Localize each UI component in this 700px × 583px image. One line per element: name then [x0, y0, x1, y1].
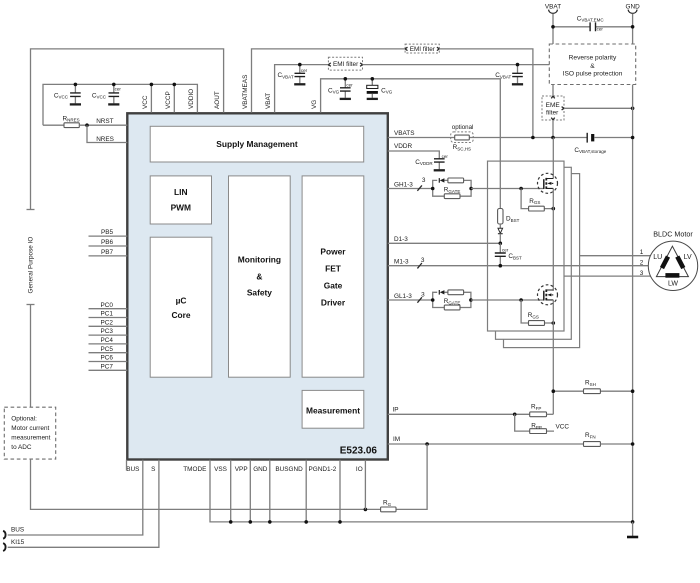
- junction dot RFN GND: [631, 442, 635, 446]
- capacitor CVBAT,EMC cer: [577, 15, 605, 31]
- resistor RGS low side: [521, 300, 553, 325]
- wire pin VG rail: [321, 79, 501, 161]
- svg-text:measurement: measurement: [11, 435, 50, 442]
- svg-text:VCC: VCC: [142, 95, 149, 109]
- svg-text:PC0: PC0: [101, 302, 114, 309]
- junction dot RGATE HS right: [469, 187, 473, 191]
- bus slash 3 GL1-3: [417, 291, 425, 302]
- junction dot EME GND: [631, 107, 635, 111]
- bridge stacked rectangle 2: [496, 167, 572, 339]
- svg-text:S: S: [151, 466, 155, 473]
- junction dot IO RG: [364, 508, 368, 512]
- wire VBAT net below box: [552, 85, 554, 97]
- svg-text:1: 1: [640, 249, 644, 256]
- junction dot NRST node: [85, 123, 89, 127]
- svg-text:ISO pulse protection: ISO pulse protection: [563, 70, 623, 77]
- wire pin VCC: [150, 84, 152, 112]
- junction dot LS gate RGS: [519, 298, 523, 302]
- svg-text:GL1-3: GL1-3: [394, 293, 412, 300]
- junction dot CVBAT2: [516, 63, 520, 67]
- svg-text:EME: EME: [546, 102, 561, 109]
- optional resistor RSC,HS: [451, 124, 474, 151]
- junction dot D1-3 DBST: [499, 242, 503, 246]
- svg-text:3: 3: [421, 291, 425, 298]
- wire GND main vertical: [632, 85, 634, 522]
- pin stub PB6: [89, 245, 128, 247]
- svg-text:Gate: Gate: [324, 280, 343, 290]
- wire pin M1-3 phase 2 to motor: [388, 265, 651, 267]
- svg-text:filter: filter: [546, 110, 559, 117]
- resistor RG: [381, 500, 396, 512]
- svg-text:LU: LU: [653, 254, 662, 261]
- junction dot IP node: [513, 413, 517, 417]
- connector arrow KI15: [3, 543, 5, 551]
- wire VCC rail top-left: [43, 84, 197, 125]
- svg-text:AOUT: AOUT: [214, 91, 221, 109]
- resistor RPP pull-up to VCC: [515, 414, 570, 433]
- resistor RSH: [553, 380, 632, 394]
- svg-text:M1-3: M1-3: [394, 259, 409, 266]
- svg-text:Motor current: Motor current: [11, 425, 49, 432]
- terminal GND: [625, 4, 640, 44]
- left pin strip stub: [126, 460, 128, 471]
- svg-text:VDDIO: VDDIO: [188, 89, 195, 109]
- diode DBST: [498, 209, 520, 244]
- svg-text:GND: GND: [625, 4, 640, 11]
- junction dot VPP: [249, 520, 253, 524]
- svg-text:PB6: PB6: [101, 239, 114, 246]
- svg-text:VSS: VSS: [214, 466, 227, 473]
- svg-text:LW: LW: [668, 280, 678, 287]
- junction dot VBAT column VBATS: [551, 136, 555, 140]
- svg-text:&: &: [256, 272, 262, 282]
- EME filter dashed box: [542, 96, 564, 120]
- wire EMI filter 1 output down to VBATS net: [439, 49, 533, 138]
- block Monitoring & Safety: [229, 176, 291, 377]
- svg-text:KI15: KI15: [11, 539, 25, 546]
- svg-text:VCCP: VCCP: [165, 91, 172, 109]
- svg-text:VBATMEAS: VBATMEAS: [242, 75, 249, 109]
- svg-text:PB7: PB7: [101, 249, 114, 256]
- pin stub PC6: [89, 361, 128, 363]
- capacitor CVBAT 2: [495, 65, 523, 85]
- svg-text:IO: IO: [356, 466, 363, 473]
- wire pin VCCP: [173, 84, 175, 112]
- IC E523.06 main block: [127, 113, 388, 459]
- svg-text:µC: µC: [176, 295, 187, 305]
- wire VG rail inside bridge to DBST: [499, 161, 501, 208]
- capacitor CVCC 2 cer: [92, 84, 121, 104]
- svg-text:Safety: Safety: [247, 288, 272, 298]
- wire AOUT to left rail: [31, 49, 224, 210]
- junction dot ground bus GND line: [631, 520, 635, 524]
- svg-text:PC3: PC3: [101, 328, 114, 335]
- svg-text:VBATS: VBATS: [394, 130, 414, 137]
- wire pin GH1-3: [388, 188, 433, 190]
- optional ADC dashed box: [4, 407, 55, 459]
- svg-text:PB5: PB5: [101, 229, 114, 236]
- resistor RFP: [530, 403, 554, 416]
- wire pin TMODE to ground bus: [210, 460, 633, 522]
- wire EME filter to GND line: [564, 107, 633, 109]
- pin stub PC2: [89, 325, 128, 327]
- svg-text:BUSGND: BUSGND: [275, 466, 303, 473]
- wire phase 1 from bridge 3: [580, 255, 651, 257]
- pin stub PC5: [89, 352, 128, 354]
- svg-text:3: 3: [422, 177, 426, 184]
- svg-text:LIN: LIN: [174, 187, 188, 197]
- wire AOUT down to optional box: [30, 305, 32, 408]
- bridge stacked rectangle 1: [488, 161, 565, 331]
- junction dot VBAT rail: [551, 25, 555, 29]
- svg-text:IP: IP: [393, 407, 399, 414]
- svg-text:VG: VG: [311, 100, 318, 109]
- svg-text:BLDC Motor: BLDC Motor: [653, 230, 693, 239]
- wire VBAT-GND top rail: [553, 26, 633, 28]
- svg-text:&: &: [590, 63, 595, 70]
- block LIN PWM: [150, 176, 211, 224]
- capacitor CVG 1 cer: [328, 79, 353, 99]
- junction dot RSH left: [552, 389, 556, 393]
- terminal VBAT: [545, 4, 561, 44]
- junction dot EMI1-VBATS: [531, 136, 535, 140]
- svg-text:BUS: BUS: [11, 526, 24, 533]
- resistor RFN: [584, 432, 633, 446]
- junction dot RGS HS source: [552, 207, 556, 211]
- svg-text:IM: IM: [393, 436, 400, 443]
- capacitor CBST cer: [495, 243, 522, 265]
- svg-text:BUS: BUS: [126, 466, 139, 473]
- capacitor CVG 2 electrolytic: [367, 79, 393, 99]
- svg-text:VPP: VPP: [235, 466, 248, 473]
- capacitor CVBAT 1 cer: [278, 65, 308, 85]
- svg-text:cer: cer: [115, 86, 122, 91]
- svg-text:VBAT: VBAT: [265, 93, 272, 109]
- svg-text:D1-3: D1-3: [394, 236, 408, 243]
- tick break top General Purpose IO: [27, 209, 35, 211]
- block Supply Management: [150, 126, 364, 162]
- reverse polarity ISO pulse protection dashed box: [549, 44, 635, 85]
- pin stub PB7: [89, 255, 128, 257]
- svg-text:FET: FET: [325, 264, 342, 274]
- svg-text:PC4: PC4: [101, 337, 114, 344]
- EMI filter box 2: [328, 57, 362, 70]
- bridge stacked rectangle 3: [504, 174, 580, 348]
- wire EME filter down to VBATS node: [552, 120, 554, 138]
- svg-text:PWM: PWM: [171, 203, 191, 213]
- svg-text:optional: optional: [452, 124, 474, 131]
- wire IM branch down to RG: [396, 444, 427, 509]
- tick break bottom General Purpose IO: [27, 304, 35, 306]
- wire NRES: [87, 125, 127, 142]
- junction dot GND pin: [268, 520, 272, 524]
- pin stub PC4: [89, 343, 128, 345]
- svg-text:cer: cer: [597, 27, 604, 32]
- pin stub PC7: [89, 369, 128, 371]
- resistor network RGATE high side with diode: [433, 178, 471, 199]
- wire pin VSS: [230, 460, 232, 522]
- wire EMI filter 2 output to reverse polarity box: [363, 64, 550, 66]
- wire pin IP: [388, 413, 530, 415]
- svg-text:Supply Management: Supply Management: [216, 139, 298, 149]
- pin stub PC0: [89, 308, 128, 310]
- svg-text:TMODE: TMODE: [183, 466, 206, 473]
- junction dot HS gate RGS: [519, 187, 523, 191]
- junction dot GND rail: [631, 25, 635, 29]
- junction dot CVBAT1: [298, 63, 302, 67]
- wire GND to ground symbol: [632, 522, 634, 537]
- block uC Core: [150, 237, 212, 377]
- junction dot CVCC2: [112, 83, 116, 87]
- wire pin VBAT up to EMI filter 2: [275, 65, 329, 113]
- wire from optional box to IO line: [31, 459, 381, 509]
- block Power FET Gate Driver: [302, 176, 364, 377]
- bus slash 3 GH1-3: [417, 177, 425, 191]
- svg-text:E523.06: E523.06: [340, 446, 378, 457]
- capacitor CVBAT,storage: [574, 133, 632, 154]
- resistor network RGATE low side with diode: [433, 290, 471, 310]
- wire pin D1-3: [388, 242, 501, 244]
- svg-text:NRST: NRST: [96, 118, 113, 125]
- BLDC motor: [648, 230, 697, 291]
- wire pin S to KI15: [8, 460, 159, 548]
- ground symbol: [627, 536, 638, 539]
- wire LS gate: [471, 299, 544, 301]
- wire pin PGND1-2: [339, 460, 341, 522]
- pin stub PC3: [89, 334, 128, 336]
- junction dot VSS: [229, 520, 233, 524]
- svg-text:VBAT: VBAT: [545, 4, 561, 11]
- svg-text:General Purpose IO: General Purpose IO: [27, 237, 34, 294]
- junction dot RSH GND: [631, 389, 635, 393]
- MOSFET high side: [538, 138, 558, 291]
- junction dot RGS LS source: [552, 321, 556, 325]
- svg-text:Power: Power: [320, 247, 346, 257]
- resistor RGS high side: [521, 189, 553, 212]
- junction dot CVG1: [344, 77, 348, 81]
- svg-text:PC6: PC6: [101, 355, 114, 362]
- junction dot RGATE HS left: [431, 187, 435, 191]
- junction dot CVG2: [371, 77, 375, 81]
- junction dot M1-3 CBST: [499, 264, 503, 268]
- svg-text:3: 3: [640, 270, 644, 277]
- MOSFET low side: [538, 285, 558, 415]
- block Measurement: [302, 390, 364, 428]
- wire pin BUSGND: [305, 460, 307, 522]
- svg-text:NRES: NRES: [96, 136, 114, 143]
- wire VBATS from IC through RSC,HS: [388, 137, 587, 139]
- svg-text:PC5: PC5: [101, 346, 114, 353]
- junction dot RGATE LS right: [469, 298, 473, 302]
- junction dot VCCP: [173, 83, 177, 87]
- svg-text:to ADC: to ADC: [11, 444, 32, 451]
- wire pin VBATMEAS up to EMI filter: [252, 49, 406, 113]
- resistor RNRES: [43, 115, 127, 127]
- wire pin IM: [388, 443, 584, 445]
- bus slash 3 M1-3: [417, 257, 425, 268]
- wire pin VDDR: [388, 151, 440, 159]
- svg-text:Monitoring: Monitoring: [238, 254, 281, 264]
- svg-text:cer: cer: [301, 68, 308, 73]
- pin stub PB5: [89, 235, 128, 237]
- capacitor CVDDR cer: [415, 154, 448, 171]
- svg-text:cer: cer: [442, 154, 449, 159]
- svg-text:VDDR: VDDR: [394, 143, 412, 150]
- wire pin GND: [269, 460, 271, 522]
- svg-text:VCC: VCC: [556, 423, 570, 430]
- wire HS gate: [471, 188, 544, 190]
- wire phase 3 from bridge 1: [564, 275, 651, 277]
- junction dot PGND1-2: [338, 520, 342, 524]
- connector arrow BUS: [3, 531, 5, 539]
- svg-text:cer: cer: [502, 248, 509, 253]
- svg-text:Core: Core: [171, 310, 190, 320]
- wire pin BUS: [8, 460, 143, 535]
- svg-text:EMI filter: EMI filter: [410, 46, 436, 53]
- junction dot storage GND: [631, 136, 635, 140]
- svg-text:PC1: PC1: [101, 311, 114, 318]
- junction dot BUSGND: [304, 520, 308, 524]
- svg-text:PGND1-2: PGND1-2: [309, 466, 337, 473]
- svg-text:Measurement: Measurement: [306, 406, 360, 416]
- svg-text:Optional:: Optional:: [11, 415, 37, 422]
- svg-text:2: 2: [640, 260, 644, 267]
- wire pin GL1-3: [388, 299, 433, 301]
- svg-text:GND: GND: [253, 466, 268, 473]
- svg-text:Driver: Driver: [321, 297, 346, 307]
- pin stub PC1: [89, 317, 128, 319]
- junction dot RGATE LS left: [431, 298, 435, 302]
- svg-text:LV: LV: [684, 254, 692, 261]
- junction dot VCC: [150, 83, 154, 87]
- wire pin IO: [364, 460, 366, 510]
- svg-text:3: 3: [421, 257, 425, 264]
- capacitor CVCC 1: [54, 84, 81, 104]
- svg-text:GH1-3: GH1-3: [394, 181, 413, 188]
- junction dot IM branch: [425, 442, 429, 446]
- svg-text:cer: cer: [346, 83, 353, 88]
- svg-text:EMI filter: EMI filter: [333, 61, 359, 68]
- EMI filter box 1: [405, 44, 439, 53]
- svg-text:Reverse polarity: Reverse polarity: [569, 55, 617, 62]
- junction dot CVCC1: [74, 83, 78, 87]
- wire pin VPP: [249, 460, 251, 522]
- svg-text:PC7: PC7: [101, 363, 114, 370]
- svg-text:PC2: PC2: [101, 319, 114, 326]
